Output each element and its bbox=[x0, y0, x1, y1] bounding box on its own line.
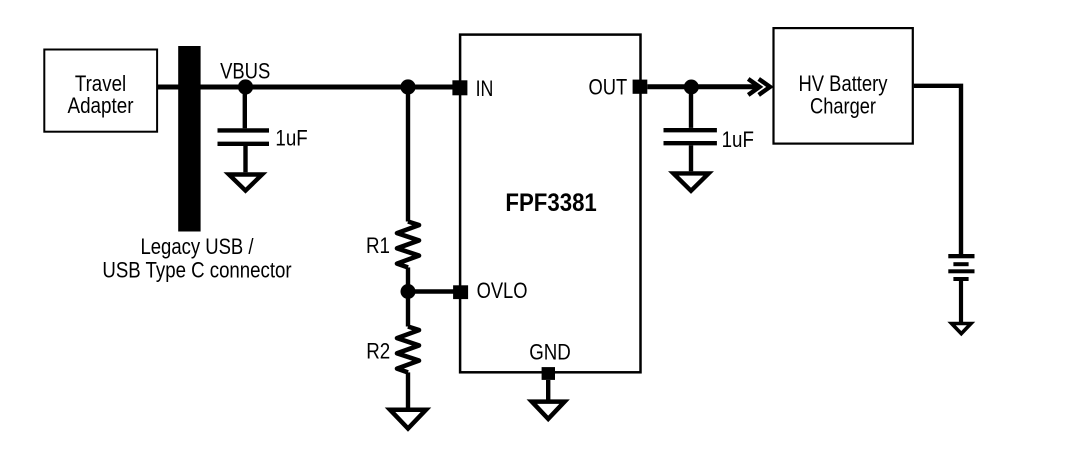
svg-text:R1: R1 bbox=[366, 233, 390, 258]
svg-text:Charger: Charger bbox=[810, 93, 876, 118]
node OVLO junction dot bbox=[401, 284, 416, 299]
pin IN square bbox=[452, 80, 467, 95]
node IN junction dot bbox=[400, 79, 415, 94]
svg-text:Legacy USB /: Legacy USB / bbox=[141, 234, 255, 259]
Travel Adapter box bbox=[44, 50, 157, 132]
USB connector bar bbox=[178, 46, 200, 232]
pin GND square bbox=[542, 367, 555, 380]
wire OVLO node to OVLO pin bbox=[408, 289, 454, 293]
svg-text:USB Type C connector: USB Type C connector bbox=[102, 257, 291, 282]
battery BT1 bbox=[948, 254, 974, 281]
wire from IN rail down to R1 bbox=[406, 87, 410, 222]
capacitor C2 1uF at OUT bbox=[664, 87, 717, 171]
wire R1 to OVLO node bbox=[406, 267, 410, 291]
ground for R2 bbox=[390, 410, 426, 429]
ground arrow at battery bbox=[952, 324, 971, 334]
node OUT junction dot bbox=[684, 80, 699, 95]
svg-text:1uF: 1uF bbox=[722, 127, 754, 152]
ground for C1 bbox=[229, 175, 262, 191]
svg-text:GND: GND bbox=[529, 340, 571, 365]
ground for C2 bbox=[673, 173, 708, 190]
resistor R1 bbox=[397, 222, 419, 268]
pin OVLO square bbox=[453, 285, 468, 299]
wire OUT to HV Battery Charger bbox=[647, 84, 756, 89]
svg-text:1uF: 1uF bbox=[275, 125, 307, 150]
ground for GND pin bbox=[532, 402, 565, 419]
wire HV Battery Charger to battery bbox=[914, 86, 961, 255]
pin OUT square bbox=[633, 80, 648, 94]
wire VBUS rail from Travel Adapter to IN bbox=[158, 85, 454, 90]
wire R2 to ground bbox=[406, 372, 410, 409]
svg-text:OVLO: OVLO bbox=[477, 278, 528, 303]
capacitor C1 1uF at VBUS bbox=[218, 87, 270, 172]
svg-text:IN: IN bbox=[476, 76, 494, 101]
resistor R2 bbox=[397, 327, 419, 373]
svg-text:OUT: OUT bbox=[589, 75, 628, 100]
HV Battery Charger box bbox=[774, 28, 913, 144]
wire GND pin to ground bbox=[546, 380, 550, 402]
wire battery to ground arrow bbox=[959, 281, 963, 323]
arrow chevron 1 bbox=[748, 79, 759, 95]
node VBUS junction dot bbox=[238, 79, 253, 94]
op IC U1 FPF3381 box bbox=[460, 35, 640, 373]
arrow chevron 2 bbox=[759, 79, 770, 95]
svg-text:FPF3381: FPF3381 bbox=[505, 189, 596, 217]
wire OVLO node down to R2 bbox=[406, 292, 410, 327]
label Legacy USB / USB Type C connector bbox=[102, 234, 291, 282]
svg-text:R2: R2 bbox=[366, 338, 390, 363]
svg-text:Adapter: Adapter bbox=[68, 93, 134, 118]
